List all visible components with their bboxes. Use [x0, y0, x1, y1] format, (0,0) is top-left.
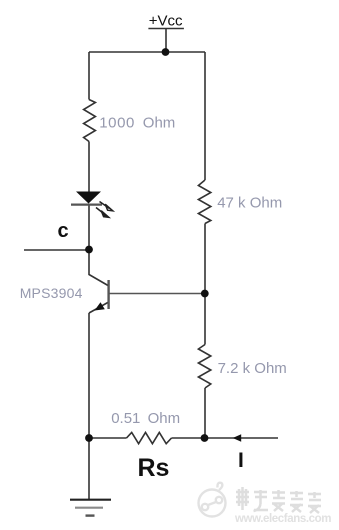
svg-text:1000: 1000 [99, 115, 135, 132]
svg-text:Ohm: Ohm [143, 115, 176, 132]
svg-text:Ohm: Ohm [148, 410, 181, 427]
svg-text:MPS3904: MPS3904 [20, 285, 83, 301]
svg-text:7.2 k Ohm: 7.2 k Ohm [218, 360, 287, 377]
svg-text:www.elecfans.com: www.elecfans.com [234, 513, 331, 525]
svg-text:0.51: 0.51 [111, 410, 140, 427]
svg-text:47 k Ohm: 47 k Ohm [217, 195, 282, 212]
svg-text:c: c [58, 220, 69, 242]
svg-text:I: I [238, 449, 244, 472]
svg-text:Rs: Rs [138, 454, 170, 482]
svg-text:+Vcc: +Vcc [149, 13, 183, 30]
